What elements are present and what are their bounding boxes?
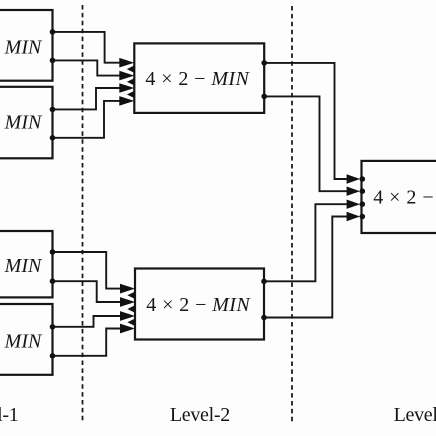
svg-text:MIN: MIN: [4, 112, 43, 134]
svg-text:MIN: MIN: [4, 255, 43, 277]
svg-text:Level-1: Level-1: [0, 404, 18, 426]
svg-text:MIN: MIN: [4, 37, 43, 59]
svg-text:4 × 2 − MIN: 4 × 2 − MIN: [145, 68, 250, 90]
svg-text:MIN: MIN: [4, 330, 43, 352]
svg-text:4 × 2 − MIN: 4 × 2 − MIN: [146, 294, 251, 316]
svg-text:4 × 2 − MIN: 4 × 2 − MIN: [373, 186, 436, 208]
svg-text:Level-2: Level-2: [170, 404, 230, 426]
svg-text:Level-3: Level-3: [394, 404, 436, 426]
